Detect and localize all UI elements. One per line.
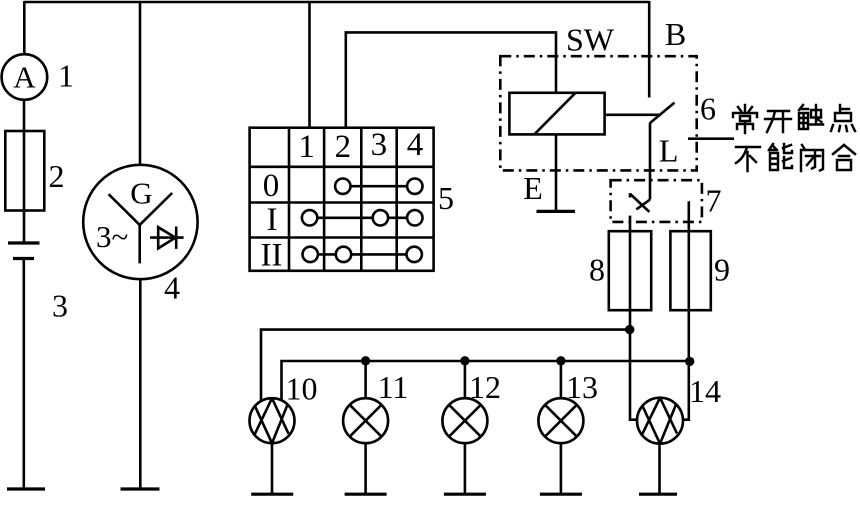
note text line1: 常开触点 <box>733 105 855 133</box>
svg-text:1: 1 <box>298 129 315 165</box>
relay box SW (dashed) <box>500 56 696 170</box>
svg-text:E: E <box>523 170 543 206</box>
char neng <box>769 144 792 170</box>
ground lamp10 <box>251 493 293 496</box>
wire ammeter drop <box>23 1 26 55</box>
wire lamp11 ground <box>364 443 367 494</box>
ground E <box>537 210 576 213</box>
ammeter A1 <box>2 54 48 100</box>
dimmer box 7 (dash-dot) <box>611 180 702 222</box>
wire fuse8 branch <box>630 216 638 420</box>
lamp 12 <box>442 398 487 443</box>
wire lamp12 drop <box>464 361 467 398</box>
svg-text:L: L <box>659 133 679 169</box>
wire coil right lead <box>605 114 661 117</box>
char bi <box>801 145 823 171</box>
ground lamp14 <box>639 493 677 496</box>
svg-text:I: I <box>267 202 278 238</box>
svg-text:5: 5 <box>438 180 454 216</box>
char dian <box>831 105 855 131</box>
wire bus2 <box>346 32 556 127</box>
wire fuse9 branch <box>683 201 689 419</box>
wire lamp14 ground <box>658 444 661 495</box>
ground lamp11 <box>345 493 387 496</box>
table row0 contacts <box>335 179 422 194</box>
node dot fuse9-bus2 <box>685 357 694 366</box>
ground lamp13 <box>540 493 582 496</box>
lamp 13 <box>538 398 583 443</box>
node dot lamp13 <box>556 356 565 365</box>
wire bus lamp feed 1 <box>261 330 630 401</box>
char chang <box>733 105 757 133</box>
wire top bus <box>24 1 649 4</box>
char chu <box>799 105 823 129</box>
generator G4 <box>83 165 197 279</box>
note text line2: 不能闭合 <box>736 144 855 171</box>
wire lamp10 ground <box>271 443 274 494</box>
svg-text:B: B <box>665 16 686 52</box>
table rowI contacts <box>302 210 423 225</box>
svg-text:SW: SW <box>566 22 615 58</box>
switch table 5 <box>250 127 434 274</box>
wire generator to ground <box>139 279 142 489</box>
char he <box>833 145 855 170</box>
wire lamp13 ground <box>560 443 563 494</box>
node dot lamp12 <box>460 356 469 365</box>
svg-text:9: 9 <box>714 252 730 288</box>
svg-text:1: 1 <box>58 58 74 94</box>
svg-text:II: II <box>261 238 283 274</box>
ground lamp12 <box>444 493 486 496</box>
battery 3 <box>8 243 40 259</box>
char bu <box>736 147 760 171</box>
ground generator <box>121 487 160 490</box>
svg-text:8: 8 <box>589 252 605 288</box>
relay coil <box>509 93 604 135</box>
lamp 14 (headlamp) <box>637 398 683 444</box>
svg-text:12: 12 <box>469 369 501 405</box>
svg-text:7: 7 <box>706 183 722 219</box>
wire lamp12 ground <box>464 443 467 494</box>
wire battery to ground <box>22 259 25 490</box>
svg-text:13: 13 <box>566 369 598 405</box>
wire ammeter to battery <box>23 100 26 243</box>
lamp 10 (headlamp) <box>250 398 295 443</box>
node dot fuse8-bus1 <box>625 325 634 334</box>
node dot lamp11 <box>361 356 370 365</box>
wire switch6 fixed contact drop <box>648 1 651 98</box>
fuse 8 <box>609 231 651 310</box>
switch 6 blade <box>650 103 675 200</box>
wire generator drop <box>139 1 142 166</box>
svg-text:4: 4 <box>407 127 424 163</box>
lamp 11 <box>343 398 388 443</box>
diode in generator <box>150 227 184 249</box>
wire table col1 drop <box>308 1 311 128</box>
char kai <box>765 111 791 132</box>
svg-text:4: 4 <box>164 270 180 306</box>
svg-text:3: 3 <box>52 288 68 324</box>
svg-text:3: 3 <box>371 127 388 163</box>
wire bus lamp feed 2 <box>282 361 690 401</box>
wire lamp11 drop <box>364 361 367 398</box>
svg-text:2: 2 <box>335 129 352 165</box>
svg-text:10: 10 <box>286 371 318 407</box>
svg-text:G: G <box>130 176 152 211</box>
ground battery <box>7 487 45 490</box>
svg-text:2: 2 <box>49 158 65 194</box>
svg-text:3~: 3~ <box>96 219 128 254</box>
switch 7 contact <box>630 193 650 212</box>
wire coil to ground E <box>555 134 558 211</box>
svg-text:11: 11 <box>378 369 409 405</box>
svg-text:6: 6 <box>700 91 716 127</box>
svg-text:0: 0 <box>263 168 280 204</box>
table rowII contacts <box>303 247 422 262</box>
svg-text:A: A <box>13 60 36 95</box>
fuse 2 <box>5 131 44 211</box>
leader line <box>688 137 734 140</box>
wire lamp13 drop <box>560 361 563 398</box>
fuse 9 <box>670 231 710 310</box>
svg-text:14: 14 <box>689 373 721 409</box>
